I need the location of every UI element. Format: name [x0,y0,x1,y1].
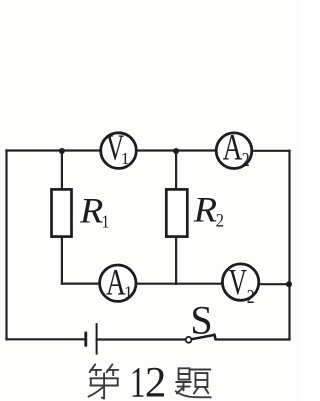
wire: top segment between V1 and A2 through node B2 [136,149,216,151]
voltmeter V1 circle [101,133,137,169]
svg-text:2: 2 [247,285,255,307]
switch S pivot (open circle terminal) [186,337,192,343]
wire: left rail [5,151,7,340]
svg-text:2: 2 [216,209,224,230]
battery positive plate (long) [96,323,98,355]
wire: R2 branch top lead from node B2 [175,151,177,190]
wire: right rail [288,151,290,339]
caption character 第 (hand-drawn strokes) [89,364,119,398]
svg-text:S: S [190,298,212,343]
wire: top-right segment from A2 to right rail [252,150,290,152]
ammeter A1 circle [100,265,136,301]
wire: middle segment from V2 to node C on right rail [259,283,289,285]
node B1 junction dot (top of R1 branch) [59,148,65,154]
svg-text:R: R [79,191,104,231]
wire: bottom segment from switch to right rail [216,338,290,340]
svg-text:R: R [193,191,218,231]
svg-text:2: 2 [145,360,167,401]
wire: R1 branch top lead from node B1 [61,151,63,190]
wire: bottom segment from battery to switch S [97,338,186,340]
svg-text:V: V [229,262,247,303]
wire: top-left segment from left rail to node B1 and V1 [7,149,101,151]
caption character 题 (hand-drawn strokes) [176,368,211,397]
ammeter A2 circle [216,133,252,169]
svg-text:1: 1 [124,283,133,302]
wire: R1 branch bottom lead down to middle wire [61,237,63,284]
battery negative plate (short) [84,332,87,347]
svg-text:1: 1 [121,149,129,168]
wire: middle segment from R1 corner to A1 [62,283,100,285]
resistor R1 body [52,189,72,236]
resistor R2 body [166,189,187,236]
node B2 junction dot (top of R2 branch) [173,148,179,154]
node C junction dot (V2 wire on right rail) [286,281,292,287]
switch S blade arm [192,335,214,339]
wire: R2 branch bottom lead down to middle wire [175,237,177,284]
voltmeter V2 circle [222,264,258,300]
wire: bottom segment from left rail to battery [7,338,86,340]
switch S contact tick [214,335,215,340]
svg-text:2: 2 [242,148,250,170]
wire: middle segment from A1 to R2 junction to V2 [136,283,222,285]
svg-text:1: 1 [102,211,110,231]
svg-text:A: A [223,128,243,169]
svg-text:1: 1 [130,360,145,401]
